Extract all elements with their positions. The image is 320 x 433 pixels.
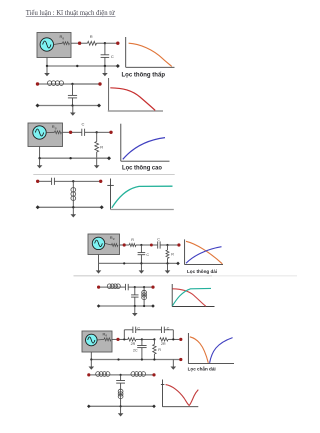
wire junction to junction (circuit 6): [135, 286, 144, 288]
junction on rail mid (circuit 3): [69, 157, 71, 159]
wire shunt resistor lead (circuit 7): [153, 339, 155, 344]
ground right (circuit 7): [171, 360, 177, 370]
ground under source (circuit 5): [96, 263, 102, 273]
wire shunt capacitor bottom (circuit 7): [141, 348, 143, 360]
graph 5 axes: [185, 239, 223, 264]
capacitor C shunt (circuit 6): [131, 295, 138, 297]
label R (circuit 3): [100, 145, 103, 150]
junction rail under source (circuit 1): [46, 65, 48, 67]
ground under source (circuit 1): [44, 66, 50, 76]
ground under capacitor (circuit 2): [70, 106, 76, 116]
ground under shunt (circuit 8): [118, 406, 124, 416]
graph 6 axes: [172, 284, 214, 307]
wire shunt C bottom (circuit 6): [134, 297, 136, 306]
junction shunt L (circuit 6): [143, 286, 145, 288]
junction rail d (circuit 7): [90, 358, 92, 360]
wire R to node (circuit 1): [97, 42, 105, 44]
svg-text:R: R: [158, 348, 161, 352]
node input (circuit 6): [97, 286, 100, 289]
wire shunt capacitor bottom (circuit 5): [140, 255, 142, 264]
wire source box down lead (circuit 3): [39, 147, 41, 159]
junction rail a (circuit 7): [117, 358, 119, 360]
label 2C (circuit 7): [133, 349, 138, 353]
label C series (circuit 5): [157, 238, 160, 242]
label Rg (circuit 1): [60, 34, 65, 40]
label Rg (circuit 5): [110, 235, 115, 241]
junction inductor top (circuit 4): [72, 180, 74, 182]
wire input to L (circuit 2): [39, 83, 48, 85]
label C top-left (circuit 7): [137, 327, 140, 331]
resistor 2R right (circuit 7): [160, 338, 168, 341]
wire junction to output (circuit 2): [73, 83, 99, 85]
wire source box down lead (circuit 5): [98, 255, 100, 264]
label R shunt (circuit 7): [158, 348, 161, 352]
bottom rail (circuit 1): [47, 65, 118, 67]
wire C to junction (circuit 3): [85, 131, 97, 133]
node mid (circuit 5): [150, 244, 153, 247]
node output (circuit 4): [99, 180, 102, 183]
junction rail (circuit 4): [72, 206, 74, 208]
wire cap to coil (circuit 8): [120, 383, 122, 389]
svg-text:C: C: [146, 253, 149, 257]
ground under inductor (circuit 4): [71, 207, 77, 217]
svg-text:Tiểu luận : Kĩ thuật mạch điện: Tiểu luận : Kĩ thuật mạch điện tử: [26, 9, 115, 17]
node input (circuit 1): [78, 42, 81, 45]
wire capacitor top lead (circuit 1): [104, 43, 106, 55]
svg-text:R: R: [171, 253, 174, 257]
voltage source box with sine generator (circuit 7): [82, 331, 112, 352]
junction shunt resistor (circuit 7): [153, 338, 155, 340]
node output (circuit 8): [152, 373, 155, 376]
capacitor C (circuit 3): [82, 129, 85, 136]
junction right branch (circuit 7): [172, 338, 174, 340]
graph 3 high-pass response curve: [123, 138, 165, 160]
wire junction to output (circuit 3): [97, 131, 110, 133]
wire input to R (circuit 5): [126, 244, 130, 246]
node input (circuit 8): [87, 373, 90, 376]
label 2R left (circuit 7): [131, 342, 136, 346]
label 'Loc thong dai': [187, 269, 217, 274]
svg-text:2R: 2R: [131, 342, 136, 346]
node input (circuit 2): [36, 82, 39, 85]
wire L to junction (circuit 2): [64, 83, 73, 85]
node rail right end (circuit 4): [100, 205, 104, 209]
wire mid node to series C (circuit 5): [153, 244, 158, 246]
label R shunt (circuit 5): [171, 253, 174, 257]
wire junction to output (circuit 6): [144, 286, 151, 288]
wire junction to mid node (circuit 5): [141, 244, 150, 246]
wire shunt resistor bottom (circuit 7): [153, 354, 155, 360]
wire shunt resistor lead (circuit 5): [167, 245, 169, 250]
voltage source box with sine generator (circuit 5): [88, 234, 120, 255]
node rail left end (circuit 8): [87, 405, 91, 409]
wire junction to output (circuit 5): [168, 244, 178, 246]
capacitor C series (circuit 5): [158, 241, 160, 248]
wire source to input node (circuit 5): [120, 244, 123, 246]
wire shunt capacitor lead (circuit 7): [141, 339, 143, 345]
label C top-right (circuit 7): [167, 327, 170, 331]
graph 3 axes: [121, 124, 170, 162]
junction on rail (circuit 1): [76, 65, 78, 67]
capacitor C top-right (circuit 7): [162, 327, 165, 333]
wire source to input node (circuit 1): [71, 42, 78, 44]
label 'Loc thong cao': [122, 166, 162, 172]
junction rail c (circuit 5): [166, 262, 168, 264]
junction on rail left (circuit 3): [38, 157, 40, 159]
inductor L shunt (circuit 4): [71, 188, 76, 201]
ground under source (circuit 3): [37, 158, 43, 168]
label 'Loc chan dai': [188, 365, 216, 371]
svg-text:2R: 2R: [161, 342, 166, 346]
resistor R series (circuit 5): [129, 244, 136, 247]
node output (circuit 2): [98, 82, 101, 85]
ground under source (circuit 7): [89, 360, 95, 370]
wire shunt C lead (circuit 6): [134, 287, 136, 295]
node rail left end (circuit 6): [97, 304, 101, 308]
graph 8 notch response curve: [166, 385, 199, 406]
ground under shunt C (circuit 5): [139, 263, 145, 273]
wire L2 to output (circuit 8): [146, 374, 153, 376]
wire shunt L lead (circuit 6): [143, 287, 145, 290]
junction rail a (circuit 5): [123, 262, 125, 264]
resistor R shunt (circuit 7): [153, 344, 156, 354]
ground under capacitor (circuit 1): [102, 66, 108, 76]
node rail right end (circuit 2): [97, 104, 101, 108]
wire top branch right segment (circuit 7): [164, 329, 173, 331]
wire capacitor bottom lead (circuit 1): [104, 57, 106, 66]
graph 2 low-pass response curve: [110, 88, 155, 111]
graph 4 axes: [111, 179, 174, 210]
bottom rail (circuit 6): [99, 305, 153, 307]
wire inductor top lead (circuit 4): [72, 181, 74, 187]
inductor L series (circuit 6): [107, 284, 120, 289]
junction rail c (circuit 7): [153, 358, 155, 360]
junction at capacitor top (circuit 1): [104, 42, 106, 44]
wire shunt bottom (circuit 8): [120, 399, 122, 407]
node output (circuit 5): [177, 243, 180, 246]
bottom rail (circuit 4): [38, 206, 102, 208]
wire to center junction (circuit 7): [136, 338, 142, 340]
capacitor C top-left (circuit 7): [133, 327, 136, 333]
wire input to branch (circuit 7): [120, 338, 128, 340]
capacitor C shunt (circuit 5): [138, 253, 146, 255]
resistor R shunt (circuit 5): [166, 250, 169, 258]
svg-text:Lọc chắn dải: Lọc chắn dải: [188, 365, 216, 371]
bottom rail (circuit 5): [99, 262, 179, 264]
label Rg (circuit 3): [52, 124, 57, 130]
svg-text:2C: 2C: [133, 349, 138, 353]
voltage source box with sine generator (circuit 1): [37, 33, 71, 58]
inductor L1 series (circuit 8): [96, 372, 110, 377]
wire junction to output (circuit 4): [73, 180, 99, 182]
wire resistor top lead (circuit 3): [96, 132, 98, 141]
svg-text:C: C: [111, 54, 114, 59]
junction shunt capacitor (circuit 7): [141, 338, 143, 340]
junction resistor top (circuit 3): [96, 131, 98, 133]
label C (circuit 1): [111, 54, 114, 59]
graph 7 rising notch curve: [210, 338, 233, 363]
node rail end (circuit 3): [107, 156, 111, 160]
title text 'Tieu luan : Ki thuat mach dien tu': [26, 9, 116, 17]
node output (circuit 1): [116, 42, 119, 45]
capacitor C series (circuit 4): [52, 178, 55, 185]
wire top branch left riser (circuit 7): [123, 330, 125, 340]
node input (circuit 3): [69, 131, 72, 134]
graph 2 axes: [108, 78, 163, 111]
node rail end (circuit 5): [176, 262, 180, 266]
wire input to C (circuit 4): [39, 180, 51, 182]
wire top branch left segment (circuit 7): [124, 329, 132, 331]
node output (circuit 7): [179, 338, 182, 341]
ground under resistor (circuit 3): [94, 158, 100, 168]
node input (circuit 5): [123, 243, 126, 246]
wire input to L1 (circuit 8): [90, 374, 96, 376]
junction shunt capacitor (circuit 5): [140, 244, 142, 246]
capacitor C (circuit 1): [101, 55, 110, 58]
inductor L shunt (circuit 8): [118, 389, 123, 398]
svg-text:Lọc thông cao: Lọc thông cao: [122, 166, 162, 172]
label R (circuit 5): [131, 238, 134, 242]
junction shunt resistor (circuit 5): [166, 244, 168, 246]
node rail end red (circuit 7): [179, 358, 182, 361]
svg-text:R: R: [90, 34, 93, 39]
junction rail b (circuit 5): [140, 262, 142, 264]
wire source box down lead (circuit 7): [90, 352, 92, 360]
graph 4 high-pass response curve: [112, 186, 173, 208]
graph 1 low-pass response curve: [129, 43, 172, 66]
resistor 2R left (circuit 7): [128, 338, 136, 341]
label C shunt (circuit 5): [146, 253, 149, 257]
junction rail b (circuit 7): [141, 358, 143, 360]
wire shunt resistor bottom (circuit 5): [167, 258, 169, 263]
svg-text:C: C: [157, 238, 160, 242]
wire source to input node (circuit 3): [63, 131, 70, 133]
svg-text:Lọc thông dải: Lọc thông dải: [187, 269, 217, 274]
voltage source box with sine generator (circuit 3): [28, 123, 63, 147]
svg-text:R: R: [100, 145, 103, 150]
wire top branch mid segment (circuit 7): [136, 329, 162, 331]
node input (circuit 4): [36, 180, 39, 183]
junction rail (circuit 8): [120, 405, 122, 407]
bottom rail (circuit 8): [89, 405, 154, 407]
wire resistor bottom lead (circuit 3): [96, 152, 98, 158]
wire input node to R (circuit 1): [81, 42, 88, 44]
svg-text:C: C: [82, 121, 85, 126]
wire L1 to junction (circuit 8): [110, 374, 121, 376]
node rail left end (circuit 2): [36, 104, 40, 108]
wire capacitor top lead (circuit 2): [72, 84, 74, 95]
node output (circuit 6): [151, 286, 154, 289]
wire shunt L bottom (circuit 6): [143, 300, 145, 306]
wire inductor bottom lead (circuit 4): [72, 200, 74, 207]
wire source to input node (circuit 7): [112, 338, 117, 340]
svg-text:Lọc thông thấp: Lọc thông thấp: [122, 71, 166, 78]
capacitor C series (circuit 6): [126, 284, 129, 290]
junction shunt C (circuit 6): [134, 286, 136, 288]
figure border line: [33, 174, 174, 176]
capacitor C shunt (circuit 8): [116, 381, 125, 384]
graph 6 falling curve: [172, 289, 205, 306]
node input (circuit 7): [116, 338, 119, 341]
graph 7 falling notch curve: [190, 337, 209, 363]
node rail right end (circuit 6): [151, 304, 155, 308]
capacitor C (circuit 2): [68, 95, 77, 98]
bottom rail (circuit 2): [38, 105, 100, 107]
wire R to junction (circuit 5): [136, 244, 141, 246]
wire shunt lead upper (circuit 8): [120, 375, 122, 381]
node output (circuit 3): [109, 131, 112, 134]
wire input to C (circuit 3): [72, 131, 82, 133]
wire series C to junction (circuit 5): [160, 244, 167, 246]
inductor L shunt (circuit 6): [142, 290, 147, 299]
junction rail capacitor (circuit 1): [104, 65, 106, 67]
ground under shunt C (circuit 6): [132, 306, 138, 316]
graph 4 asymptote tick: [107, 184, 114, 186]
wire capacitor bottom lead (circuit 2): [72, 98, 74, 106]
node rail end (circuit 1): [116, 64, 120, 68]
junction rail (circuit 6): [143, 305, 145, 307]
graph 6 rising curve: [172, 288, 211, 305]
wire to output node (circuit 7): [168, 338, 179, 340]
label C (circuit 3): [82, 121, 85, 126]
graph 8 axes: [163, 380, 199, 407]
wire source box down lead (circuit 1): [46, 58, 48, 67]
wire L to C (circuit 6): [120, 286, 125, 288]
junction rail (circuit 2): [71, 104, 73, 106]
node rail right end (circuit 8): [152, 405, 156, 409]
label 'Loc thong thap': [122, 71, 166, 78]
wire input to L (circuit 6): [100, 286, 107, 288]
label Rg (circuit 7): [103, 331, 108, 337]
inductor L (circuit 2): [48, 81, 64, 86]
graph 7 axes: [188, 333, 234, 364]
wire junction to L2 (circuit 8): [121, 374, 131, 376]
capacitor 2C shunt (circuit 7): [137, 346, 146, 348]
graph 5 high-pass curve: [186, 247, 222, 264]
node rail left end (circuit 4): [36, 205, 40, 209]
figure border line lower: [74, 275, 298, 277]
wire shunt capacitor lead (circuit 5): [140, 245, 142, 253]
resistor R (circuit 1): [88, 41, 97, 45]
junction left branch (circuit 7): [123, 338, 125, 340]
bottom rail (circuit 7): [91, 359, 181, 361]
bottom rail (circuit 3): [40, 157, 109, 159]
ground under shunt R (circuit 5): [165, 263, 171, 273]
wire node to output (circuit 1): [105, 42, 117, 44]
wire C to junction (circuit 6): [128, 286, 135, 288]
graph 8 asymptote tick: [161, 384, 165, 386]
resistor R shunt (circuit 3): [95, 142, 99, 153]
label 2R right (circuit 7): [161, 342, 166, 346]
wire top branch right riser (circuit 7): [172, 330, 174, 340]
label R (circuit 1): [90, 34, 93, 39]
junction capacitor top (circuit 2): [71, 83, 73, 85]
graph 1 axes: [126, 37, 175, 67]
graph 5 low-pass curve: [186, 241, 222, 263]
wire C to junction (circuit 4): [54, 180, 73, 182]
wire center to second junction (circuit 7): [142, 338, 155, 340]
inductor L2 series (circuit 8): [131, 372, 146, 377]
svg-text:R: R: [131, 238, 134, 242]
junction center (circuit 8): [120, 374, 122, 376]
junction rail shunt C (circuit 6): [134, 305, 136, 307]
